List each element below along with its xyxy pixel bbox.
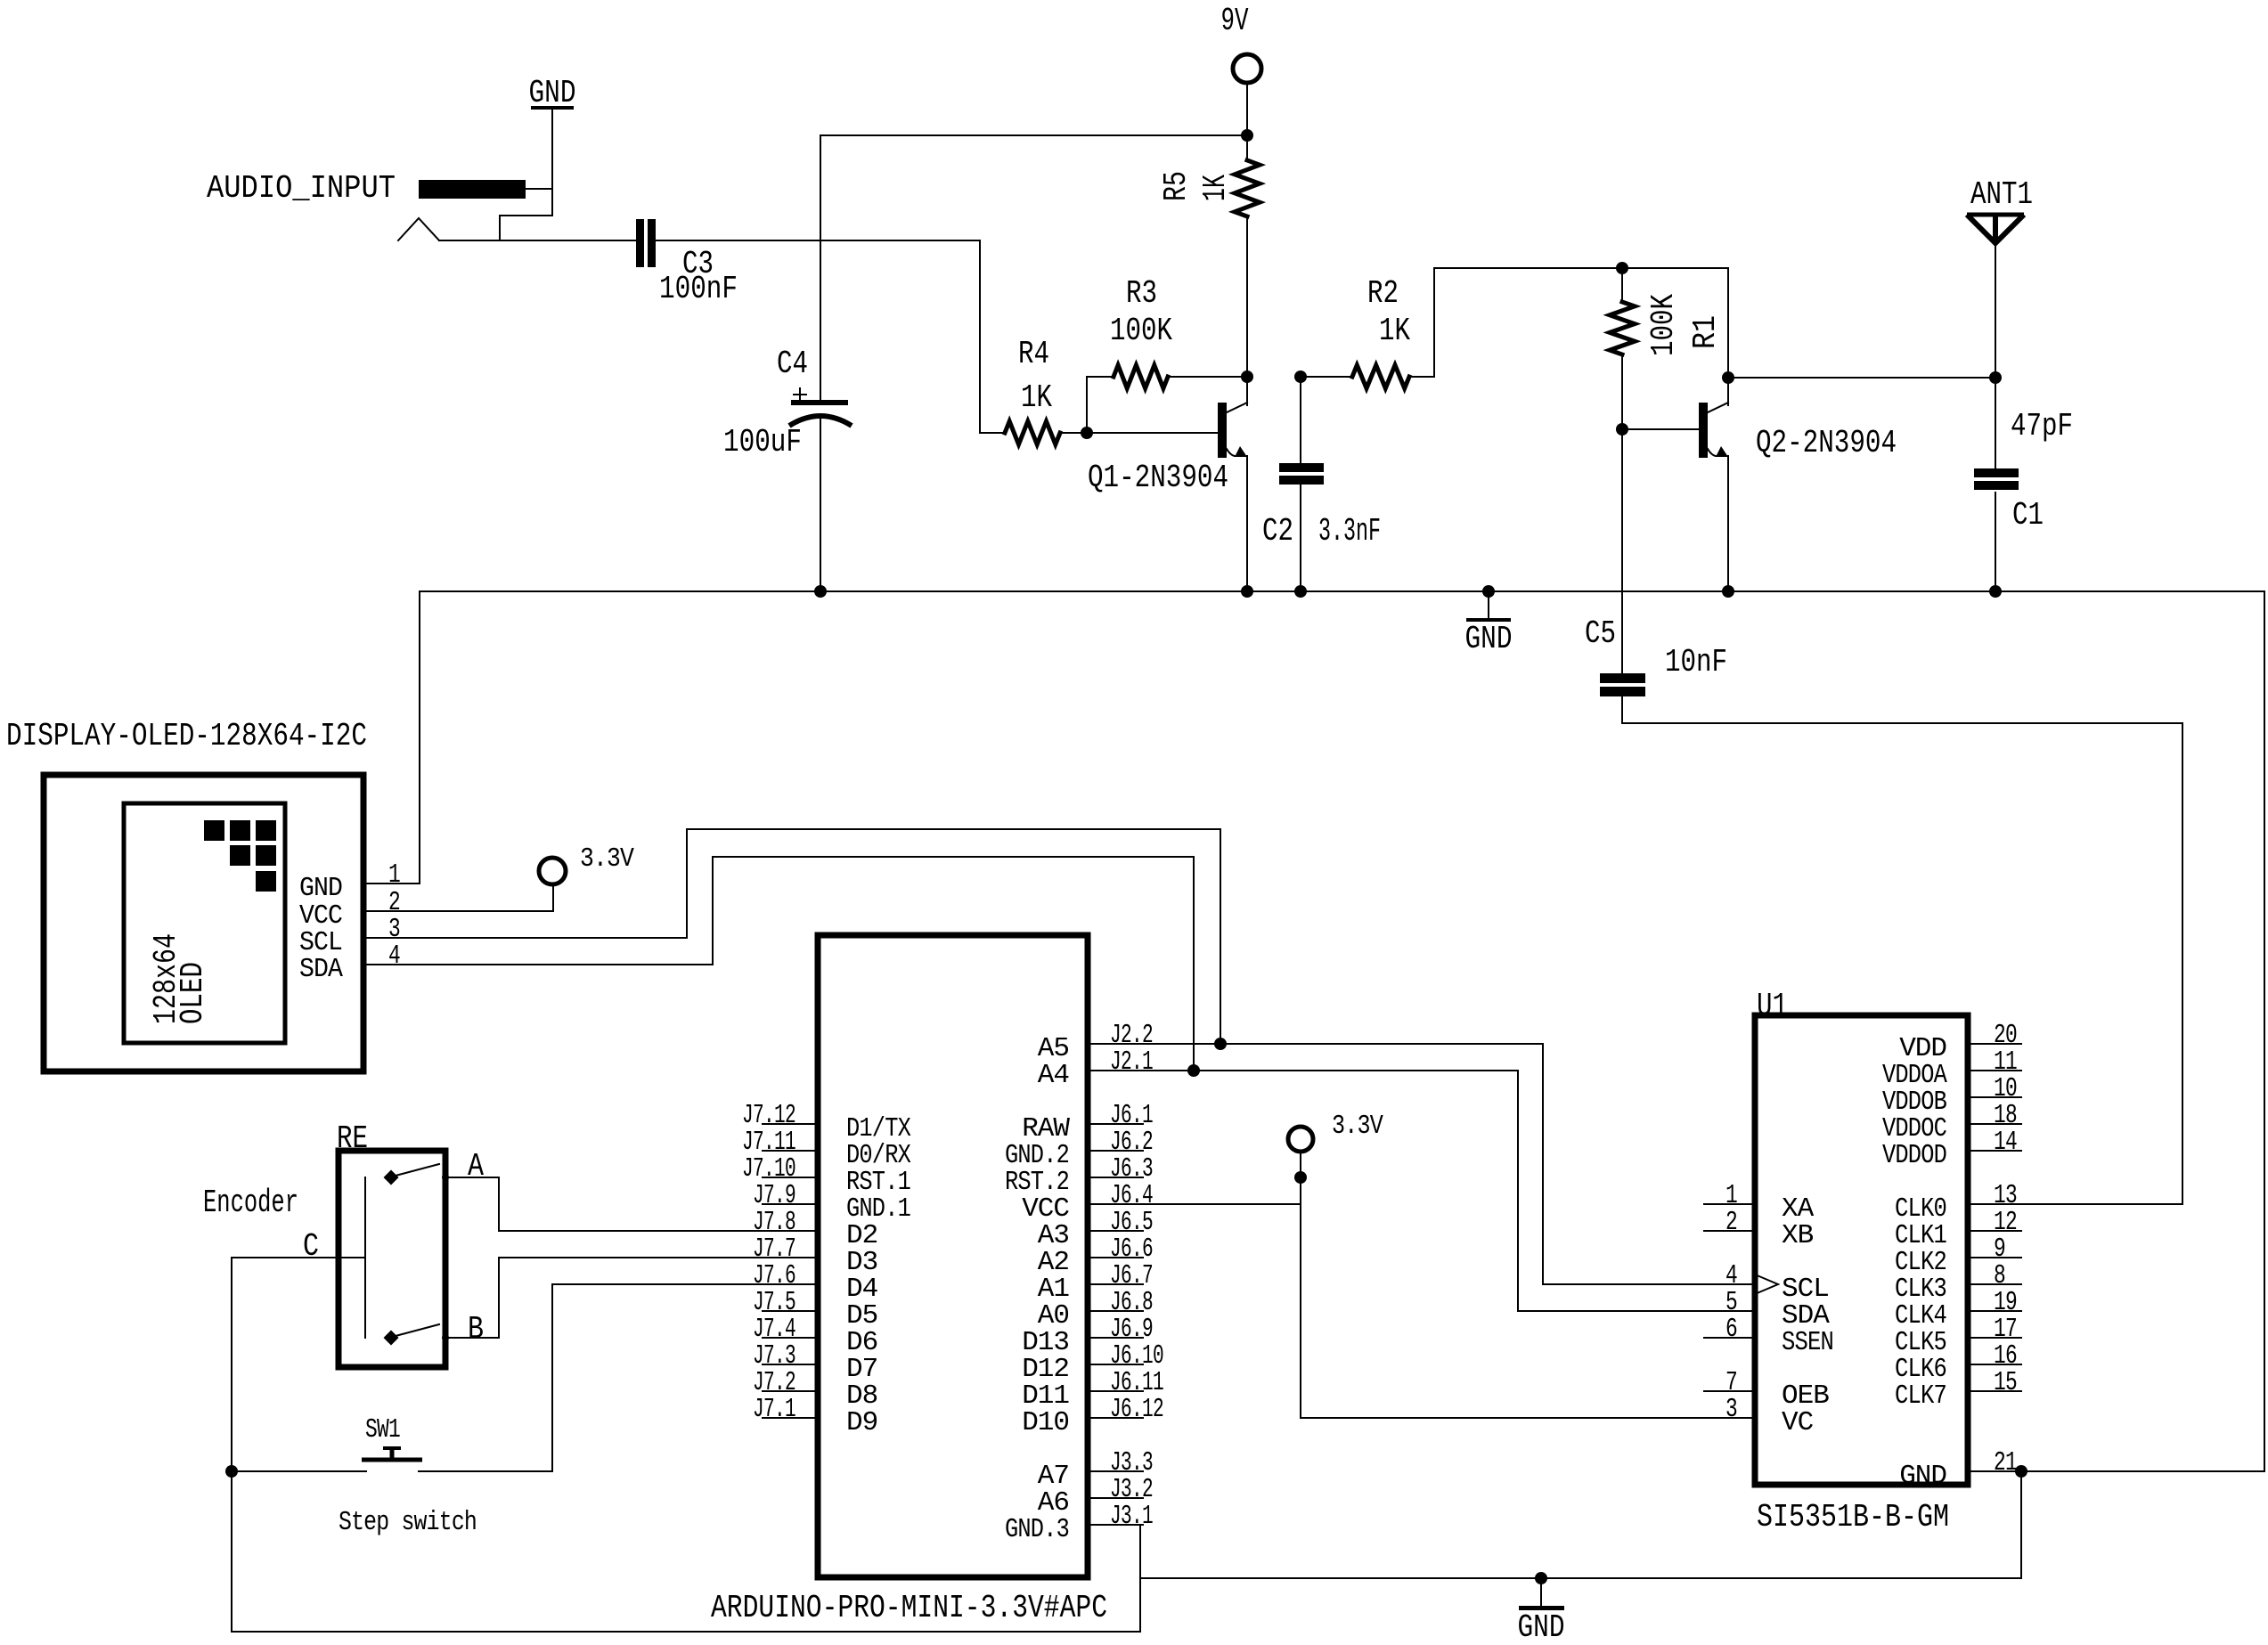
svg-text:GND: GND	[299, 873, 342, 904]
svg-text:100uF: 100uF	[723, 424, 802, 460]
svg-text:GND.3: GND.3	[1005, 1514, 1069, 1545]
svg-text:GND: GND	[529, 75, 576, 111]
svg-text:XB: XB	[1782, 1220, 1814, 1251]
svg-text:1K: 1K	[1021, 379, 1052, 416]
svg-text:J3.1: J3.1	[1110, 1501, 1153, 1532]
svg-text:3.3nF: 3.3nF	[1318, 513, 1381, 550]
svg-text:6: 6	[1725, 1314, 1737, 1345]
svg-text:D9: D9	[846, 1407, 877, 1438]
svg-text:C: C	[303, 1228, 319, 1265]
svg-text:100K: 100K	[1110, 313, 1172, 349]
svg-text:1K: 1K	[1197, 175, 1234, 201]
svg-text:R5: R5	[1158, 171, 1195, 201]
svg-text:U1: U1	[1757, 988, 1788, 1024]
svg-text:A: A	[468, 1148, 484, 1185]
svg-text:VDDOD: VDDOD	[1882, 1140, 1946, 1171]
svg-text:21: 21	[1994, 1447, 2017, 1478]
svg-text:R3: R3	[1126, 275, 1157, 312]
svg-text:R4: R4	[1018, 336, 1049, 372]
svg-text:J7.1: J7.1	[753, 1394, 795, 1425]
svg-text:R1: R1	[1687, 315, 1724, 349]
svg-text:GND: GND	[1518, 1609, 1565, 1641]
svg-text:4: 4	[388, 941, 400, 972]
svg-text:ARDUINO-PRO-MINI-3.3V#APC: ARDUINO-PRO-MINI-3.3V#APC	[711, 1590, 1107, 1626]
svg-text:A4: A4	[1038, 1060, 1070, 1091]
svg-text:100nF: 100nF	[659, 271, 738, 307]
svg-text:SDA: SDA	[299, 954, 343, 985]
svg-text:VC: VC	[1782, 1407, 1814, 1438]
svg-text:AUDIO_INPUT: AUDIO_INPUT	[207, 170, 396, 207]
svg-text:Q1-2N3904: Q1-2N3904	[1088, 460, 1228, 496]
svg-text:R2: R2	[1367, 275, 1399, 312]
svg-text:ANT1: ANT1	[1970, 176, 2033, 213]
svg-text:9V: 9V	[1221, 3, 1249, 39]
svg-text:1: 1	[388, 859, 400, 891]
svg-text:SW1: SW1	[365, 1414, 400, 1445]
svg-text:GND: GND	[1899, 1461, 1946, 1492]
svg-text:C1: C1	[2012, 497, 2044, 533]
svg-text:3.3V: 3.3V	[1332, 1111, 1383, 1142]
svg-text:Encoder: Encoder	[203, 1185, 298, 1221]
svg-text:D10: D10	[1022, 1407, 1069, 1438]
svg-text:J6.12: J6.12	[1110, 1394, 1163, 1425]
svg-text:CLK7: CLK7	[1895, 1380, 1946, 1412]
svg-text:GND: GND	[1465, 621, 1513, 657]
svg-text:Step switch: Step switch	[339, 1507, 477, 1538]
svg-text:10nF: 10nF	[1665, 644, 1727, 680]
svg-text:C2: C2	[1262, 513, 1293, 550]
svg-text:J2.1: J2.1	[1110, 1046, 1153, 1078]
svg-text:C4: C4	[777, 346, 808, 382]
svg-text:Q2-2N3904: Q2-2N3904	[1756, 425, 1897, 461]
svg-text:B: B	[468, 1311, 484, 1348]
svg-text:14: 14	[1994, 1127, 2017, 1158]
svg-text:100K: 100K	[1645, 294, 1682, 356]
svg-text:1K: 1K	[1379, 313, 1410, 349]
svg-text:SI5351B-B-GM: SI5351B-B-GM	[1757, 1499, 1949, 1535]
svg-text:2: 2	[1725, 1207, 1737, 1238]
svg-text:DISPLAY-OLED-128X64-I2C: DISPLAY-OLED-128X64-I2C	[6, 718, 367, 754]
svg-text:RE: RE	[337, 1120, 368, 1157]
svg-text:15: 15	[1994, 1367, 2017, 1398]
svg-text:3.3V: 3.3V	[580, 843, 634, 875]
svg-text:OLED: OLED	[175, 962, 211, 1024]
svg-text:SSEN: SSEN	[1782, 1327, 1833, 1358]
svg-text:47pF: 47pF	[2011, 408, 2073, 444]
svg-text:C5: C5	[1585, 615, 1616, 652]
svg-text:3: 3	[1725, 1394, 1737, 1425]
